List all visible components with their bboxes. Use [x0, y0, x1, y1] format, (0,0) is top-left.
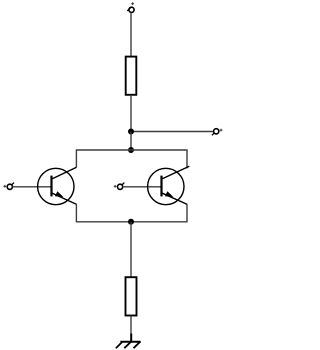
- junction: emitter rail node: [128, 219, 134, 225]
- wire: port P3 to Q1 base: [12, 186, 50, 188]
- wire: output node to port P2: [131, 131, 214, 133]
- wire: emitter rail (bottom) joining Q1 and Q2 emitters: [76, 204, 187, 222]
- wire: collector rail (top) with drops to Q1 and Q2 collectors: [76, 150, 187, 168]
- transistor Q2 (NPN, right): [148, 166, 190, 205]
- wire: port P1 to resistor R1: [130, 13, 132, 57]
- ground: [116, 334, 141, 349]
- wire: resistor R1 to output node: [130, 95, 132, 132]
- port P1 (positive supply terminal, top): [127, 2, 134, 12]
- resistor R1 (collector load, top): [126, 57, 137, 95]
- wire: port P4 to Q2 base: [123, 186, 161, 188]
- junction: collector rail node: [128, 147, 134, 153]
- wire: emitter rail to resistor R2: [130, 222, 132, 277]
- port P3 (input terminal, left): [3, 183, 14, 190]
- resistor R2 (tail resistor, bottom): [126, 277, 137, 315]
- port P2 (output terminal, right): [212, 129, 223, 136]
- port P4 (input terminal, middle): [114, 183, 125, 190]
- wire: output node to collector rail: [130, 132, 132, 151]
- wire: resistor R2 to ground: [130, 316, 132, 335]
- junction: output node: [128, 129, 134, 135]
- transistor Q1 (NPN, left): [38, 167, 77, 205]
